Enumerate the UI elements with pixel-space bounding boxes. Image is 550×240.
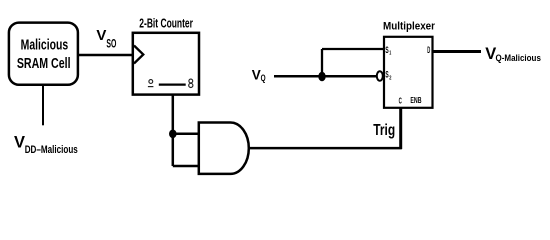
svg-text:C: C — [399, 96, 402, 105]
svg-text:1: 1 — [389, 51, 391, 57]
svg-text:Malicious: Malicious — [21, 37, 69, 53]
svg-text:Multiplexer: Multiplexer — [383, 20, 436, 32]
svg-text:ENB: ENB — [410, 96, 421, 105]
svg-text:2: 2 — [389, 76, 391, 82]
svg-text:SO: SO — [106, 39, 116, 51]
svg-text:DD–Malicious: DD–Malicious — [25, 144, 78, 156]
svg-text:Trig: Trig — [373, 122, 395, 139]
svg-text:V: V — [14, 134, 25, 152]
svg-text:2-Bit Counter: 2-Bit Counter — [139, 16, 193, 31]
svg-text:V: V — [252, 67, 261, 82]
svg-text:V: V — [96, 27, 106, 44]
svg-text:Q: Q — [261, 73, 266, 83]
svg-text:D: D — [427, 45, 430, 55]
svg-text:SRAM Cell: SRAM Cell — [17, 56, 71, 72]
svg-text:Q-Malicious: Q-Malicious — [496, 53, 541, 64]
